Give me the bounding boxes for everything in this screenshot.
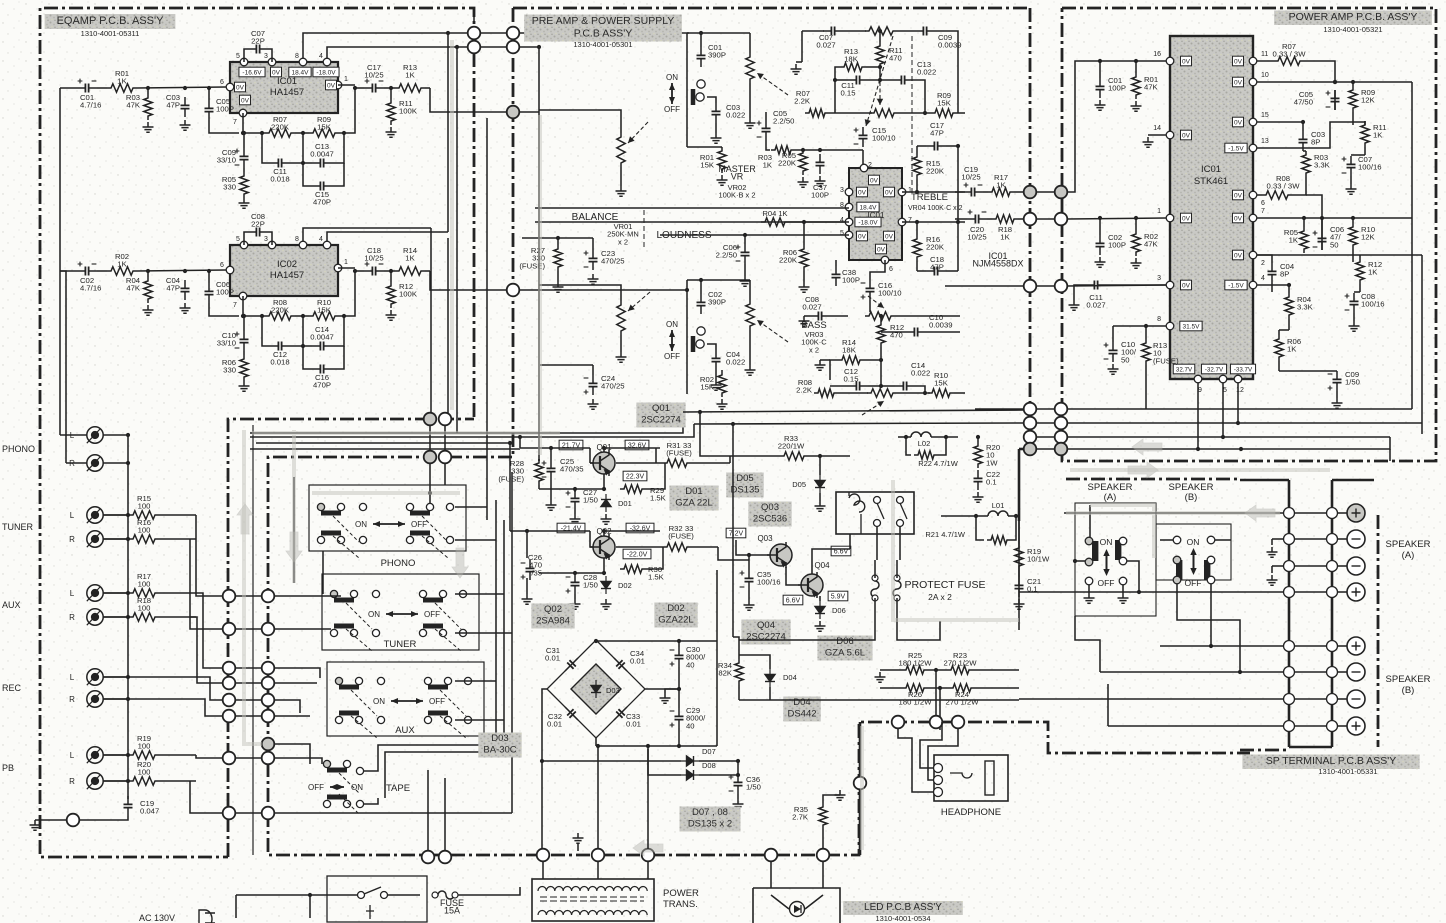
wire: [715, 123, 717, 133]
wire: [1018, 570, 1020, 577]
wire: [866, 66, 880, 68]
wire: [1014, 191, 1024, 193]
ground: [1131, 101, 1142, 111]
wire: [732, 424, 734, 637]
wire: [550, 448, 552, 460]
svg-text:0.027: 0.027: [816, 41, 835, 50]
wire: [274, 628, 331, 630]
svg-text:4: 4: [840, 217, 844, 224]
wire: [509, 443, 511, 531]
wire: [1036, 436, 1055, 438]
capacitor C38 100P: [832, 266, 841, 286]
resistor R08 220K: [265, 312, 295, 320]
wire: [486, 500, 488, 520]
resistor R10 15K: [309, 312, 339, 320]
ground: [740, 276, 751, 286]
resistor R09 12K: [1349, 86, 1357, 112]
svg-text:(B): (B): [1402, 685, 1415, 696]
wire: [1294, 565, 1327, 567]
svg-text:0.018: 0.018: [270, 175, 289, 184]
wire: [303, 162, 312, 164]
svg-text:270 1/2W: 270 1/2W: [946, 698, 980, 707]
wire bus to power amp: [694, 423, 1024, 424]
resistor VR01 pot ch2: [617, 301, 625, 335]
wire: [540, 364, 593, 366]
wire: [159, 754, 196, 756]
junction: [1236, 421, 1240, 425]
junction: [1302, 216, 1306, 220]
svg-text:220K: 220K: [271, 306, 290, 315]
svg-text:0.022: 0.022: [726, 111, 745, 120]
resistor VR04 pot ch1 bot: [870, 109, 898, 117]
wire: [519, 289, 687, 291]
junction: [879, 358, 883, 362]
svg-text:7: 7: [233, 302, 237, 309]
wire: [769, 665, 771, 669]
wire: [103, 780, 129, 782]
wire: [770, 699, 1019, 701]
svg-text:(FUSE): (FUSE): [668, 532, 694, 541]
wire: [1271, 539, 1273, 545]
jack PB L: [87, 747, 103, 763]
svg-text:2SC2274: 2SC2274: [641, 415, 681, 426]
PRE AMP PCB border top: [513, 7, 1030, 10]
wire: [1305, 177, 1307, 190]
wire: [1067, 422, 1422, 424]
voltage 0V: [1180, 213, 1191, 223]
voltage 0V: [1180, 280, 1191, 290]
wire: [920, 722, 942, 768]
svg-text:0V: 0V: [1182, 215, 1191, 222]
pin 2 of preamp IC01: [860, 164, 868, 172]
svg-text:L02: L02: [918, 439, 931, 448]
capacitor C01 100P: [1096, 78, 1105, 98]
wire: [935, 31, 958, 113]
ground: [1267, 575, 1278, 585]
wire AC: [236, 894, 357, 896]
resistor R17 100: [129, 589, 159, 597]
bridge rectifier D03 outer ring: [547, 640, 645, 738]
wire: [1075, 616, 1100, 672]
wire: [879, 31, 881, 42]
label Q04 2SC2274: [741, 620, 790, 645]
voltage -32.7V: [1201, 364, 1226, 374]
wire: [595, 738, 597, 746]
capacitor C15 470P: [312, 182, 332, 191]
svg-text:HA1457: HA1457: [270, 87, 304, 98]
svg-text:0.047: 0.047: [140, 807, 159, 816]
wire: [896, 598, 898, 620]
svg-text:220/1W: 220/1W: [778, 442, 805, 451]
wire: [935, 670, 937, 722]
wire: [1321, 218, 1323, 230]
junction: [342, 314, 346, 318]
svg-text:180 1/2W: 180 1/2W: [899, 659, 933, 668]
wire: [1036, 448, 1055, 450]
wire: [744, 235, 746, 244]
wire: [458, 887, 520, 895]
wire: [917, 221, 965, 223]
wire: [868, 79, 893, 81]
label D04 DS442: [783, 697, 820, 722]
wire: [1337, 538, 1347, 540]
wire aux R: [190, 617, 222, 683]
wire: [700, 412, 730, 456]
voltage label -18.0V: [313, 67, 339, 77]
wire: [802, 149, 804, 150]
wire: [928, 669, 947, 671]
wire: [1279, 370, 1337, 372]
capacitor C09 0.0039: [915, 27, 935, 36]
svg-text:0.01: 0.01: [630, 657, 645, 666]
wire: [589, 448, 591, 463]
svg-text:D05: D05: [792, 480, 806, 489]
resistor R18 1K: [992, 215, 1018, 223]
wire: [895, 315, 960, 317]
wire tuner L to connector: [196, 515, 222, 596]
label D01 GZA22L: [669, 486, 718, 511]
signal-flow arrow: [286, 532, 302, 562]
svg-text:1.5K: 1.5K: [648, 573, 665, 582]
junction: [540, 759, 544, 763]
wire: [928, 728, 958, 780]
svg-text:0.01: 0.01: [545, 654, 560, 663]
op-amp IC01 NJM4558 (preamp): [849, 168, 902, 260]
svg-text:0.33 / 3W: 0.33 / 3W: [1273, 50, 1307, 59]
svg-text:1310-4001-05301: 1310-4001-05301: [573, 40, 632, 49]
wire: [796, 61, 802, 63]
ground: [1069, 300, 1080, 310]
wire tuner R to connector: [190, 539, 222, 629]
junction: [923, 111, 927, 115]
wire: [898, 728, 912, 755]
wire: [1278, 330, 1280, 335]
svg-text:470/25: 470/25: [601, 382, 625, 391]
svg-text:-1.5V: -1.5V: [1228, 145, 1244, 152]
treble pot VR04 ch1 bottom: [0, 0, 1, 1]
junction: [556, 236, 560, 240]
wire: [716, 570, 718, 641]
pin 4 of IC02: [323, 241, 331, 249]
svg-text:10: 10: [1261, 72, 1269, 79]
LED PCB box: [753, 888, 840, 923]
junction: [915, 190, 919, 194]
junction: [573, 487, 577, 491]
wire: [596, 745, 717, 747]
wire: [243, 316, 245, 331]
wire: [355, 270, 364, 272]
voltage label -16.6V: [239, 67, 265, 77]
wire: [916, 179, 918, 192]
wire: [103, 616, 129, 618]
wire: [355, 87, 364, 89]
junction: [956, 144, 960, 148]
wire IC02 pin8: [303, 228, 431, 241]
wire: [274, 668, 320, 678]
resistor R05 1K: [1300, 227, 1308, 253]
svg-text:GZA22L: GZA22L: [658, 615, 693, 626]
connector: [507, 284, 520, 297]
wire: [739, 699, 770, 701]
wire: [539, 488, 604, 490]
svg-text:22.3V: 22.3V: [626, 473, 645, 480]
svg-text:33/10: 33/10: [217, 156, 236, 165]
wire: [1177, 584, 1240, 672]
wire: [1292, 190, 1306, 195]
speaker B switch: [0, 0, 1, 1]
svg-text:47/50: 47/50: [1294, 98, 1313, 107]
svg-text:(B): (B): [1185, 492, 1198, 503]
wire PHONO R to EQ input: [60, 271, 66, 463]
ground: [815, 621, 826, 631]
capacitor C06 47/50: [1318, 230, 1327, 250]
svg-text:100P: 100P: [216, 288, 234, 297]
wire bus: [1018, 521, 1020, 630]
wire: [707, 344, 716, 350]
wire: [236, 667, 262, 669]
wire: [1127, 561, 1139, 592]
svg-text:-33.7V: -33.7V: [1234, 366, 1253, 373]
svg-text:7: 7: [908, 217, 912, 224]
wire vertical: [456, 47, 458, 433]
junction: [602, 446, 606, 450]
wire: [159, 780, 196, 782]
wire: [538, 459, 540, 461]
wire: [364, 764, 378, 771]
ground: [616, 352, 627, 362]
svg-text:TAPE: TAPE: [386, 783, 410, 794]
voltage -18.0V: [855, 217, 881, 227]
svg-text:2: 2: [1261, 260, 1265, 267]
wire: [1099, 61, 1101, 78]
svg-text:GZA 5.6L: GZA 5.6L: [825, 648, 865, 659]
wire: [1271, 566, 1273, 573]
wire: [1257, 194, 1262, 196]
junction: [923, 391, 927, 395]
wire: [243, 132, 265, 134]
wire thick bus: [1018, 449, 1021, 521]
svg-text:TRANS.: TRANS.: [663, 899, 698, 910]
capacitor C11 0.027: [1086, 281, 1106, 290]
wire: [737, 761, 739, 775]
terminal -: [1284, 667, 1295, 678]
speaker A switch ON/OFF: [1098, 537, 1115, 588]
switch block TAPE: [0, 0, 1, 1]
pin 11 of STK461: [1249, 57, 1257, 65]
wire: [803, 271, 805, 282]
jack REC L: [87, 669, 103, 685]
capacitor C19 0.047: [124, 796, 133, 816]
connector: [537, 849, 550, 862]
diode D03 internal: [591, 680, 601, 698]
pin 3 of IC01: [268, 58, 276, 66]
pin 12 of STK461: [1234, 375, 1242, 383]
wire: [899, 527, 901, 560]
resistor R08 0.33/3W: [1262, 191, 1292, 199]
voltage 7.2V: [726, 528, 746, 538]
wire: [822, 861, 824, 888]
wire input: [60, 270, 77, 272]
wire to B+: [1160, 645, 1284, 647]
wire: [880, 669, 902, 671]
svg-text:100: 100: [138, 604, 151, 613]
junction: [308, 893, 312, 897]
wire pin7 down: [242, 296, 244, 316]
voltage -21.4V: [557, 523, 585, 533]
svg-text:2A x 2: 2A x 2: [928, 592, 952, 602]
svg-text:Q03: Q03: [757, 534, 773, 543]
svg-text:D05: D05: [736, 473, 753, 484]
svg-text:PHONO: PHONO: [381, 558, 416, 569]
svg-text:-22.0V: -22.0V: [627, 551, 648, 558]
svg-text:33/10: 33/10: [217, 339, 236, 348]
connector: [952, 716, 965, 729]
svg-text:100/16: 100/16: [757, 578, 781, 587]
svg-text:15A: 15A: [444, 906, 460, 916]
switch block AUX: [327, 662, 484, 736]
wire: [771, 895, 789, 909]
wire: [1306, 195, 1322, 210]
wire rec L: [103, 677, 222, 700]
junction: [602, 487, 606, 491]
ground: [30, 820, 41, 830]
junction: [126, 591, 130, 595]
svg-text:0.33 / 3W: 0.33 / 3W: [1267, 182, 1301, 191]
svg-text:100: 100: [138, 526, 151, 535]
junction: [242, 131, 246, 135]
svg-text:1K: 1K: [117, 77, 127, 86]
capacitor C24 470/25: [589, 375, 598, 395]
terminal -: [1284, 694, 1295, 705]
label D05 DS135: [726, 473, 763, 498]
capacitor C30 8000/40: [675, 647, 684, 667]
svg-text:5: 5: [236, 53, 240, 60]
svg-text:2SC2274: 2SC2274: [746, 632, 786, 643]
capacitor C03 8P: [1299, 131, 1308, 151]
balance pot VR01 ch1: [0, 0, 1, 1]
svg-text:D06: D06: [832, 606, 846, 615]
ground: [1118, 593, 1129, 603]
junction: [956, 220, 960, 224]
capacitor C31 0.01: [562, 655, 581, 674]
svg-text:D01: D01: [685, 486, 702, 497]
svg-text:0V: 0V: [327, 82, 336, 89]
svg-text:0V: 0V: [1234, 79, 1243, 86]
wire: [159, 514, 196, 516]
connector: [1024, 280, 1037, 293]
wire: [103, 676, 128, 678]
wire: [293, 477, 295, 583]
junction: [1351, 80, 1355, 84]
svg-text:470/35: 470/35: [560, 465, 584, 474]
resistor R15 100: [129, 511, 159, 519]
wire: [687, 279, 750, 281]
svg-text:47P: 47P: [166, 101, 180, 110]
wire: [786, 567, 801, 585]
loudness switch ch2: [664, 320, 680, 361]
resistor R13 18K: [840, 63, 866, 71]
wire: [906, 437, 911, 455]
wire: [745, 234, 849, 236]
wire collector: [603, 448, 605, 452]
pin 3 of STK461: [1166, 281, 1174, 289]
wire: [236, 715, 262, 717]
pin 10 of STK461: [1249, 78, 1257, 86]
resistor R03 47K: [144, 94, 152, 120]
svg-text:ON: ON: [373, 697, 385, 706]
wire: [859, 722, 862, 777]
wire: [103, 514, 128, 516]
svg-text:IC01: IC01: [277, 76, 297, 87]
wire: [1075, 560, 1085, 562]
svg-text:0V: 0V: [1182, 58, 1191, 65]
wire jack ground bus: [127, 435, 129, 799]
svg-text:DS135: DS135: [730, 485, 759, 496]
transistor Q03 2SC536: [767, 542, 792, 568]
connector preamp board: [262, 677, 275, 690]
pin 4 of STK461: [1249, 281, 1257, 289]
wire: [729, 456, 731, 463]
resistor R01 15K: [718, 147, 726, 173]
wire: [262, 316, 270, 346]
ground: [570, 599, 581, 609]
wire: [868, 385, 881, 387]
wire: [849, 534, 851, 549]
wire base: [736, 540, 770, 555]
resistor R09 15K: [309, 129, 339, 137]
wire pin8 to connector: [303, 33, 470, 58]
wire: [1036, 191, 1055, 193]
svg-text:5.9V: 5.9V: [831, 593, 846, 600]
wire: [819, 493, 821, 501]
svg-text:L: L: [70, 511, 75, 520]
wire: [954, 392, 965, 394]
svg-text:7: 7: [233, 119, 237, 126]
wire vertical: [252, 425, 254, 855]
junction: [207, 269, 211, 273]
svg-text:0V: 0V: [1182, 132, 1191, 139]
wire: [645, 688, 679, 690]
wire: [647, 861, 649, 879]
svg-text:D07: D07: [702, 747, 716, 756]
junction: [596, 744, 600, 748]
svg-text:3.3K: 3.3K: [1297, 303, 1314, 312]
resistor R07 2.2K: [805, 109, 829, 117]
wire: [896, 560, 898, 578]
pin 7 of STK461: [1249, 214, 1257, 222]
wire: [803, 222, 805, 245]
svg-text:1310-4001-0534: 1310-4001-0534: [875, 914, 930, 923]
wire: [1294, 671, 1327, 673]
resistor R18 100: [129, 613, 159, 621]
wire: [1145, 365, 1147, 409]
junction: [1301, 120, 1305, 124]
wire stub: [473, 8, 475, 24]
wire: [1294, 645, 1327, 647]
svg-text:330: 330: [223, 366, 236, 375]
wire: [987, 218, 992, 220]
wire IC02 pin4: [327, 232, 448, 241]
wire feedback to pin1: [339, 271, 355, 316]
svg-text:0.018: 0.018: [270, 358, 289, 367]
wire: [805, 895, 823, 909]
pin 3 of IC02: [268, 241, 276, 249]
wire: [1135, 61, 1137, 73]
connector: [468, 41, 481, 54]
power switch cap: [366, 905, 374, 919]
capacitor C05 47/50: [1331, 90, 1340, 110]
connector: [507, 41, 520, 54]
